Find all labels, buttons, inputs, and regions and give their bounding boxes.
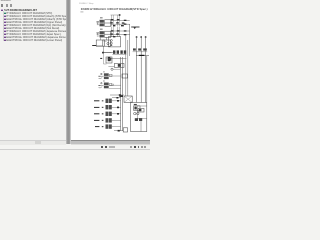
riser top arrow marks [136, 36, 138, 37]
check valve box bottom [123, 128, 127, 132]
joint down line [104, 46, 112, 52]
center risers [121, 57, 123, 131]
relief valve v1 [104, 73, 109, 76]
bookmark child 10 [0, 39, 66, 42]
bookmark child 6 [0, 27, 66, 30]
bookmark child 1 (selected, teal icon) [0, 12, 66, 15]
main control block [109, 37, 121, 47]
bookmark child 4 [0, 21, 66, 24]
bookmark child 9 [0, 36, 66, 39]
manifold right edge [146, 56, 148, 102]
travel valve row 5 [95, 126, 99, 128]
relief valve v2 hook [99, 87, 102, 88]
cluster 2 pilot lines [112, 27, 120, 38]
travel valve row 4 [94, 119, 99, 121]
swing label blob [131, 26, 139, 28]
pump lines riser group [137, 36, 146, 102]
window bottom edge [0, 148, 150, 151]
bookmark child 2 [0, 15, 66, 18]
bookmark root row [0, 9, 66, 12]
cluster 1 pilot lines up [112, 15, 120, 26]
bookmarks panel background [0, 0, 66, 150]
bookmark child 3 [0, 18, 66, 21]
return header line [109, 88, 121, 90]
solenoid valve sv1 [106, 57, 112, 63]
circle gauge [111, 68, 113, 70]
document horizontal scrollbar [71, 140, 150, 145]
line cluster mid [103, 51, 116, 53]
manifold top label line [136, 55, 149, 57]
pump circles [134, 112, 136, 114]
pump block inner rects [134, 106, 140, 111]
arrows to swing line [111, 20, 130, 34]
relief valve v2 [104, 83, 109, 86]
relief v2 gauge circle [112, 84, 114, 86]
engine pump block [131, 103, 147, 132]
travel valve row 1 [94, 100, 99, 102]
junction block dark [108, 57, 111, 61]
bookmark child 5 [0, 24, 66, 27]
bookmark child 7 [0, 30, 66, 33]
relief v1 port [109, 74, 112, 76]
pilot valve cluster 2 body [100, 31, 104, 34]
pump block inner top label [134, 103, 137, 105]
circuit diagram svg [0, 0, 150, 150]
panel toolbar icon: new bookmark [6, 4, 8, 6]
page title text [81, 7, 148, 11]
pump line top components row [133, 48, 136, 50]
travel valve row 2 [94, 106, 99, 108]
pump inner vertical [140, 118, 142, 131]
relief valve v1 hook [99, 77, 102, 78]
pilot filter box [122, 74, 128, 78]
sv1 left label [100, 57, 102, 59]
pump block inner box [137, 106, 146, 118]
panel toolbar icon: delete [10, 4, 12, 6]
cluster 1 top label [100, 17, 103, 18]
tank return line bottom [114, 130, 123, 132]
extra return line [112, 97, 121, 99]
panel/page separator strip [66, 0, 71, 144]
cluster 1 left marks [96, 22, 99, 25]
relief v2 port [109, 83, 111, 85]
travel row connector stubs [102, 100, 104, 101]
mid riser pair [126, 35, 128, 96]
suction line [110, 94, 124, 96]
cluster 2 left marks [96, 33, 99, 36]
bookmark child 8 [0, 33, 66, 36]
joint label dashes [92, 45, 96, 47]
travel valve row 3 [94, 113, 99, 115]
panel toolbar icon: expand [1, 4, 3, 6]
component cluster A [114, 63, 124, 67]
cluster 2 junction dots [111, 30, 114, 31]
manifold box A [96, 40, 104, 46]
valve row under main block [113, 50, 115, 53]
cluster 2 top label [100, 29, 103, 30]
joint box T1 [103, 40, 111, 46]
page small header text [79, 3, 93, 5]
panel header title "Bookmarks" [1, 0, 11, 2]
swing riser line [129, 24, 131, 56]
cluster 1 junction dots [111, 19, 114, 20]
mid component box [124, 96, 132, 102]
joint box feed from cluster 2 [101, 37, 107, 40]
status bar [0, 145, 150, 150]
riser junction marks [117, 100, 119, 102]
bookmark tree guide line [2, 11, 5, 41]
status icons [101, 146, 103, 148]
document page [71, 0, 150, 140]
pilot valve cluster 1 body [100, 20, 104, 23]
panel horizontal scrollbar [0, 140, 66, 147]
page sub-label speck [80, 11, 83, 12]
